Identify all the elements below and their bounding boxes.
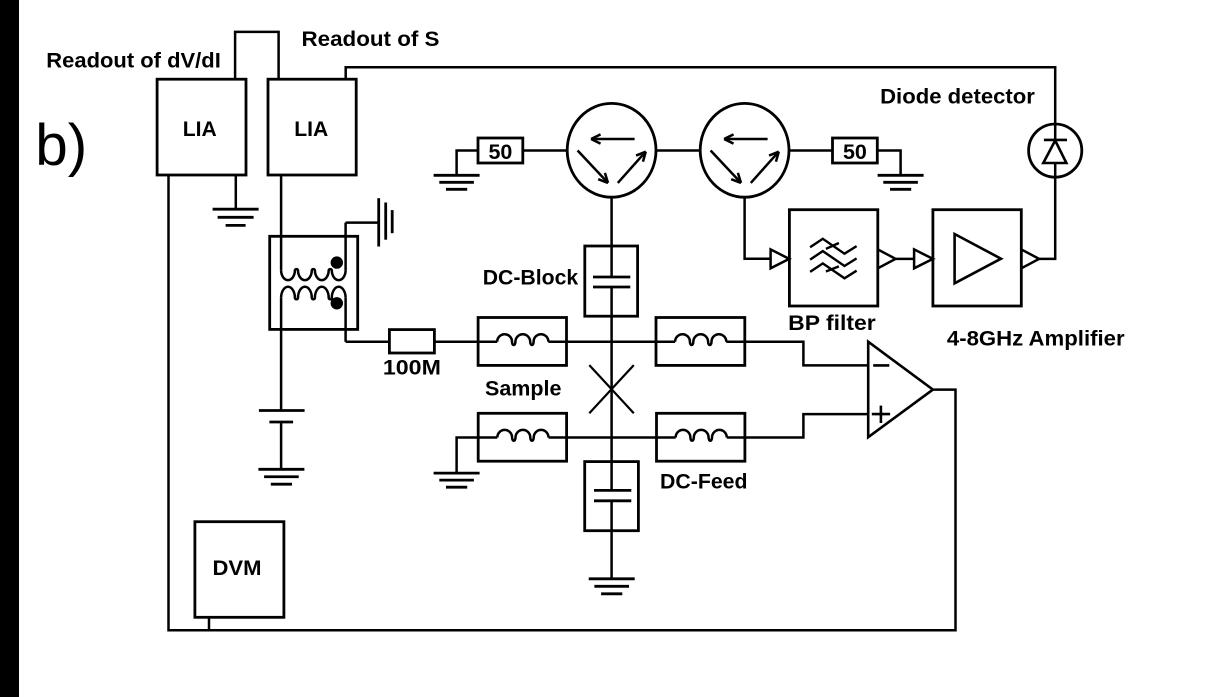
svg-text:DC-Block: DC-Block xyxy=(483,265,579,289)
svg-text:BP filter: BP filter xyxy=(788,311,876,335)
svg-text:LIA: LIA xyxy=(294,117,328,141)
svg-text:Readout of S: Readout of S xyxy=(302,27,440,51)
svg-text:DC-Feed: DC-Feed xyxy=(660,470,748,494)
svg-text:Diode detector: Diode detector xyxy=(880,85,1035,109)
svg-text:DVM: DVM xyxy=(213,556,262,580)
svg-text:50: 50 xyxy=(488,140,512,164)
svg-text:50: 50 xyxy=(843,140,867,164)
svg-text:Sample: Sample xyxy=(485,377,562,401)
svg-text:100M: 100M xyxy=(383,356,441,380)
svg-text:4-8GHz Amplifier: 4-8GHz Amplifier xyxy=(947,327,1125,351)
svg-text:LIA: LIA xyxy=(183,117,217,141)
svg-text:b): b) xyxy=(35,113,87,178)
svg-text:Readout of dV/dI: Readout of dV/dI xyxy=(46,48,221,72)
